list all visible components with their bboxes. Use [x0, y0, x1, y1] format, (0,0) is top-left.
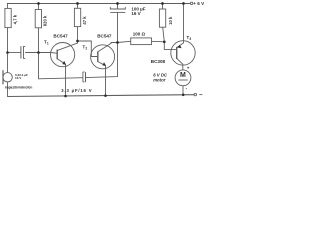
svg-text:16 V: 16 V: [15, 76, 22, 80]
svg-text:BC308: BC308: [151, 59, 166, 64]
svg-text:motor: motor: [153, 78, 166, 83]
svg-text:3: 3: [189, 37, 191, 41]
svg-text:+: +: [187, 65, 190, 70]
svg-text:+ 6 V: + 6 V: [193, 1, 205, 6]
svg-text:1: 1: [47, 42, 49, 46]
svg-text:4,7 k: 4,7 k: [12, 14, 17, 24]
svg-text:100 Ω: 100 Ω: [133, 31, 146, 36]
svg-text:BC547: BC547: [97, 34, 112, 39]
svg-text:3,3 µF/16 V: 3,3 µF/16 V: [61, 88, 92, 93]
svg-text:2: 2: [85, 47, 87, 51]
svg-text:BC547: BC547: [53, 34, 68, 39]
svg-text:kapazitivmikrofon: kapazitivmikrofon: [5, 85, 32, 89]
svg-text:820 k: 820 k: [43, 15, 48, 26]
svg-text:47 k: 47 k: [82, 16, 87, 25]
svg-text:M: M: [180, 72, 186, 79]
svg-text:16 V: 16 V: [131, 11, 140, 16]
svg-text:10 k: 10 k: [168, 16, 173, 25]
svg-text:-: -: [186, 86, 188, 91]
